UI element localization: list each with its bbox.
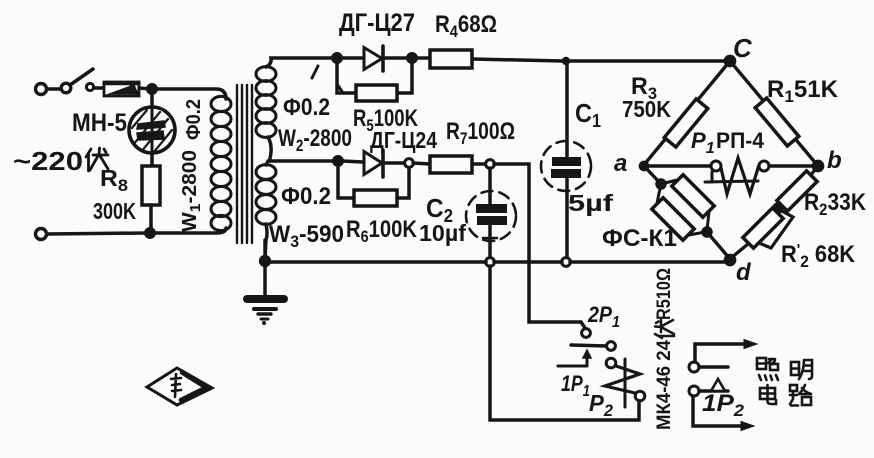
CJK text zhao (illumination) [757, 358, 778, 380]
relay 2P1 contact circle [581, 322, 585, 328]
wire bottom [47, 233, 146, 234]
resistor R'2 body [743, 208, 783, 248]
wire a to pot [647, 164, 711, 168]
svg-text:R'2 68K: R'2 68K [781, 241, 856, 271]
diode D1 (ДГ-Ц27) [364, 48, 382, 70]
potentiometer P1 zigzag [721, 158, 759, 194]
potentiometer P1 left ring [711, 161, 721, 171]
CJK glyph fu (volts) after 220 [86, 148, 108, 171]
wire R7 to node [472, 162, 485, 166]
switch fixed contact ring [86, 83, 93, 90]
svg-text:~220: ~220 [13, 146, 83, 176]
W2 top tap wire [266, 58, 337, 67]
resistor R2 body [777, 171, 817, 211]
svg-text:300K: 300K [93, 198, 136, 224]
resistor R6 loop wiring [338, 165, 354, 198]
transformer secondary winding W2 [256, 67, 276, 138]
node d [725, 255, 734, 264]
svg-text:d: d [736, 259, 752, 286]
ornament diamond [147, 368, 212, 405]
svg-text:750K: 750K [622, 96, 671, 122]
1P1 moving arrow [558, 357, 587, 366]
ring P2 bottom [635, 391, 645, 401]
resistor R7 body [430, 156, 472, 173]
junction ring C1 bottom [562, 258, 571, 267]
svg-text:a: a [614, 150, 627, 177]
secondary ground wire [263, 240, 267, 258]
diode D2 (ДГ-Ц24) [364, 152, 382, 175]
R'2 bypass hook [759, 210, 793, 248]
svg-text:10µf: 10µf [419, 220, 466, 246]
ring P2 top [606, 358, 616, 368]
svg-text:C: C [733, 33, 753, 63]
svg-text:R7100Ω: R7100Ω [446, 118, 515, 148]
CJK glyph fu (volts) in rotated relay label [655, 320, 674, 338]
svg-text:R468Ω: R468Ω [435, 11, 497, 41]
junction node branch2 left [334, 157, 342, 165]
svg-text:R151K: R151K [767, 76, 839, 106]
transformer core [237, 85, 252, 243]
svg-text:МН-5: МН-5 [72, 109, 127, 137]
junction ring branch2 right [405, 159, 414, 168]
W3 bottom tap wire [265, 224, 267, 259]
resistor R6 body [354, 190, 397, 206]
1P2 lower contact [689, 386, 699, 396]
svg-text:5µf: 5µf [568, 190, 613, 216]
bridge edge a-c [643, 61, 730, 166]
wire R4 to C1 node [472, 59, 563, 61]
fuse F1 body with wedge [104, 82, 139, 96]
resistor R5 loop wiring [337, 62, 356, 93]
svg-text:РП-4: РП-4 [716, 128, 765, 153]
wire to R7 [413, 163, 430, 164]
CJK text ming (bright) [791, 360, 812, 379]
photoresistor FS-K1 branch stubs [661, 180, 677, 184]
svg-text:ДГ-Ц24: ДГ-Ц24 [370, 127, 437, 153]
bridge edge b-d upper segment [810, 166, 818, 176]
resistor R1 body [755, 98, 799, 146]
svg-text:W1-2800: W1-2800 [179, 150, 204, 232]
svg-text:Ф0.2: Ф0.2 [183, 99, 205, 140]
resistor R5 body [356, 85, 397, 101]
wire [139, 88, 150, 89]
wire [94, 86, 104, 90]
wire lamp drop [150, 93, 154, 108]
resistor R4 body [430, 50, 472, 68]
AC input terminal top [36, 84, 47, 95]
node R2 split [774, 204, 782, 212]
relay coil P2 cross line [624, 359, 627, 407]
svg-text:ДГ-Ц27: ДГ-Ц27 [339, 9, 415, 37]
W3 top connect [266, 161, 268, 165]
CJK text dian (electric) [760, 385, 776, 404]
wire [47, 87, 60, 91]
wire top bus to bridge c [570, 59, 728, 63]
resistor R3 body [664, 99, 707, 147]
wire [341, 56, 363, 60]
svg-text:R6100K: R6100K [346, 216, 418, 246]
wire pot to b [769, 164, 814, 168]
junction node [148, 85, 156, 93]
stray tick mark [337, 84, 343, 93]
photoresistor FS-K1 body upper [672, 175, 714, 217]
wire to primary bottom [154, 228, 226, 233]
junction node branch1 right [408, 54, 416, 62]
junction node branch1 left [333, 54, 341, 62]
svg-text:W2-2800: W2-2800 [278, 125, 352, 155]
AC input terminal bottom [36, 229, 47, 240]
svg-text:b: b [827, 147, 842, 174]
switch arm [70, 69, 93, 85]
bridge edge a-d upper segment [644, 166, 661, 184]
svg-text:W3-590: W3-590 [269, 221, 344, 251]
photoresistor FS-K1 body lower [652, 198, 694, 240]
wire to transformer primary top [156, 89, 226, 99]
junction ring C2 bottom [486, 258, 495, 267]
svg-text:Ф0.2: Ф0.2 [281, 183, 331, 210]
node a [640, 162, 647, 169]
lamp MH-5 [129, 107, 175, 158]
ring bar end [607, 342, 616, 351]
switch pivot [61, 83, 71, 93]
relay return wire [490, 266, 639, 420]
potentiometer P1 right ring [759, 161, 769, 171]
wire lamp to R8 [150, 153, 154, 166]
wire to R4 [416, 56, 430, 60]
node FS join [703, 228, 711, 236]
svg-text:R233K: R233K [804, 189, 867, 219]
CJK text lu (circuit) [790, 385, 811, 406]
node c [725, 56, 734, 65]
junction ring C2 top node [486, 160, 495, 169]
bottom bus wire [269, 260, 486, 264]
transformer secondary winding W3 [256, 165, 276, 225]
svg-text:ФС-К1: ФС-К1 [602, 225, 677, 252]
resistor R8 body [142, 166, 160, 205]
ground symbol [247, 265, 284, 325]
svg-text:Ф0.2: Ф0.2 [283, 94, 330, 121]
capacitor C2 [466, 168, 516, 258]
1P2 upper contact [689, 362, 699, 372]
svg-text:R510Ω: R510Ω [654, 268, 675, 320]
stray tick mark 2 [312, 66, 318, 78]
center tap wire [268, 137, 336, 161]
transformer primary winding W1 [211, 96, 231, 230]
relay coil P2 zigzag [605, 366, 640, 393]
wire [342, 161, 363, 162]
wire R8 down [149, 205, 153, 231]
bridge edge b-d lower segment [731, 244, 748, 258]
wire to relay drop [494, 164, 581, 322]
junction node [146, 229, 154, 237]
bridge edge a-d lower segment [707, 232, 730, 259]
junction node ground [261, 257, 270, 266]
capacitor C1 [541, 57, 591, 258]
relay contact bar [571, 345, 607, 346]
node b [813, 161, 822, 170]
potentiometer P1 wiper [705, 172, 758, 182]
node FS split [657, 180, 665, 188]
svg-text:МК4-46 24: МК4-46 24 [654, 340, 675, 430]
bridge edge c-b [730, 61, 818, 166]
